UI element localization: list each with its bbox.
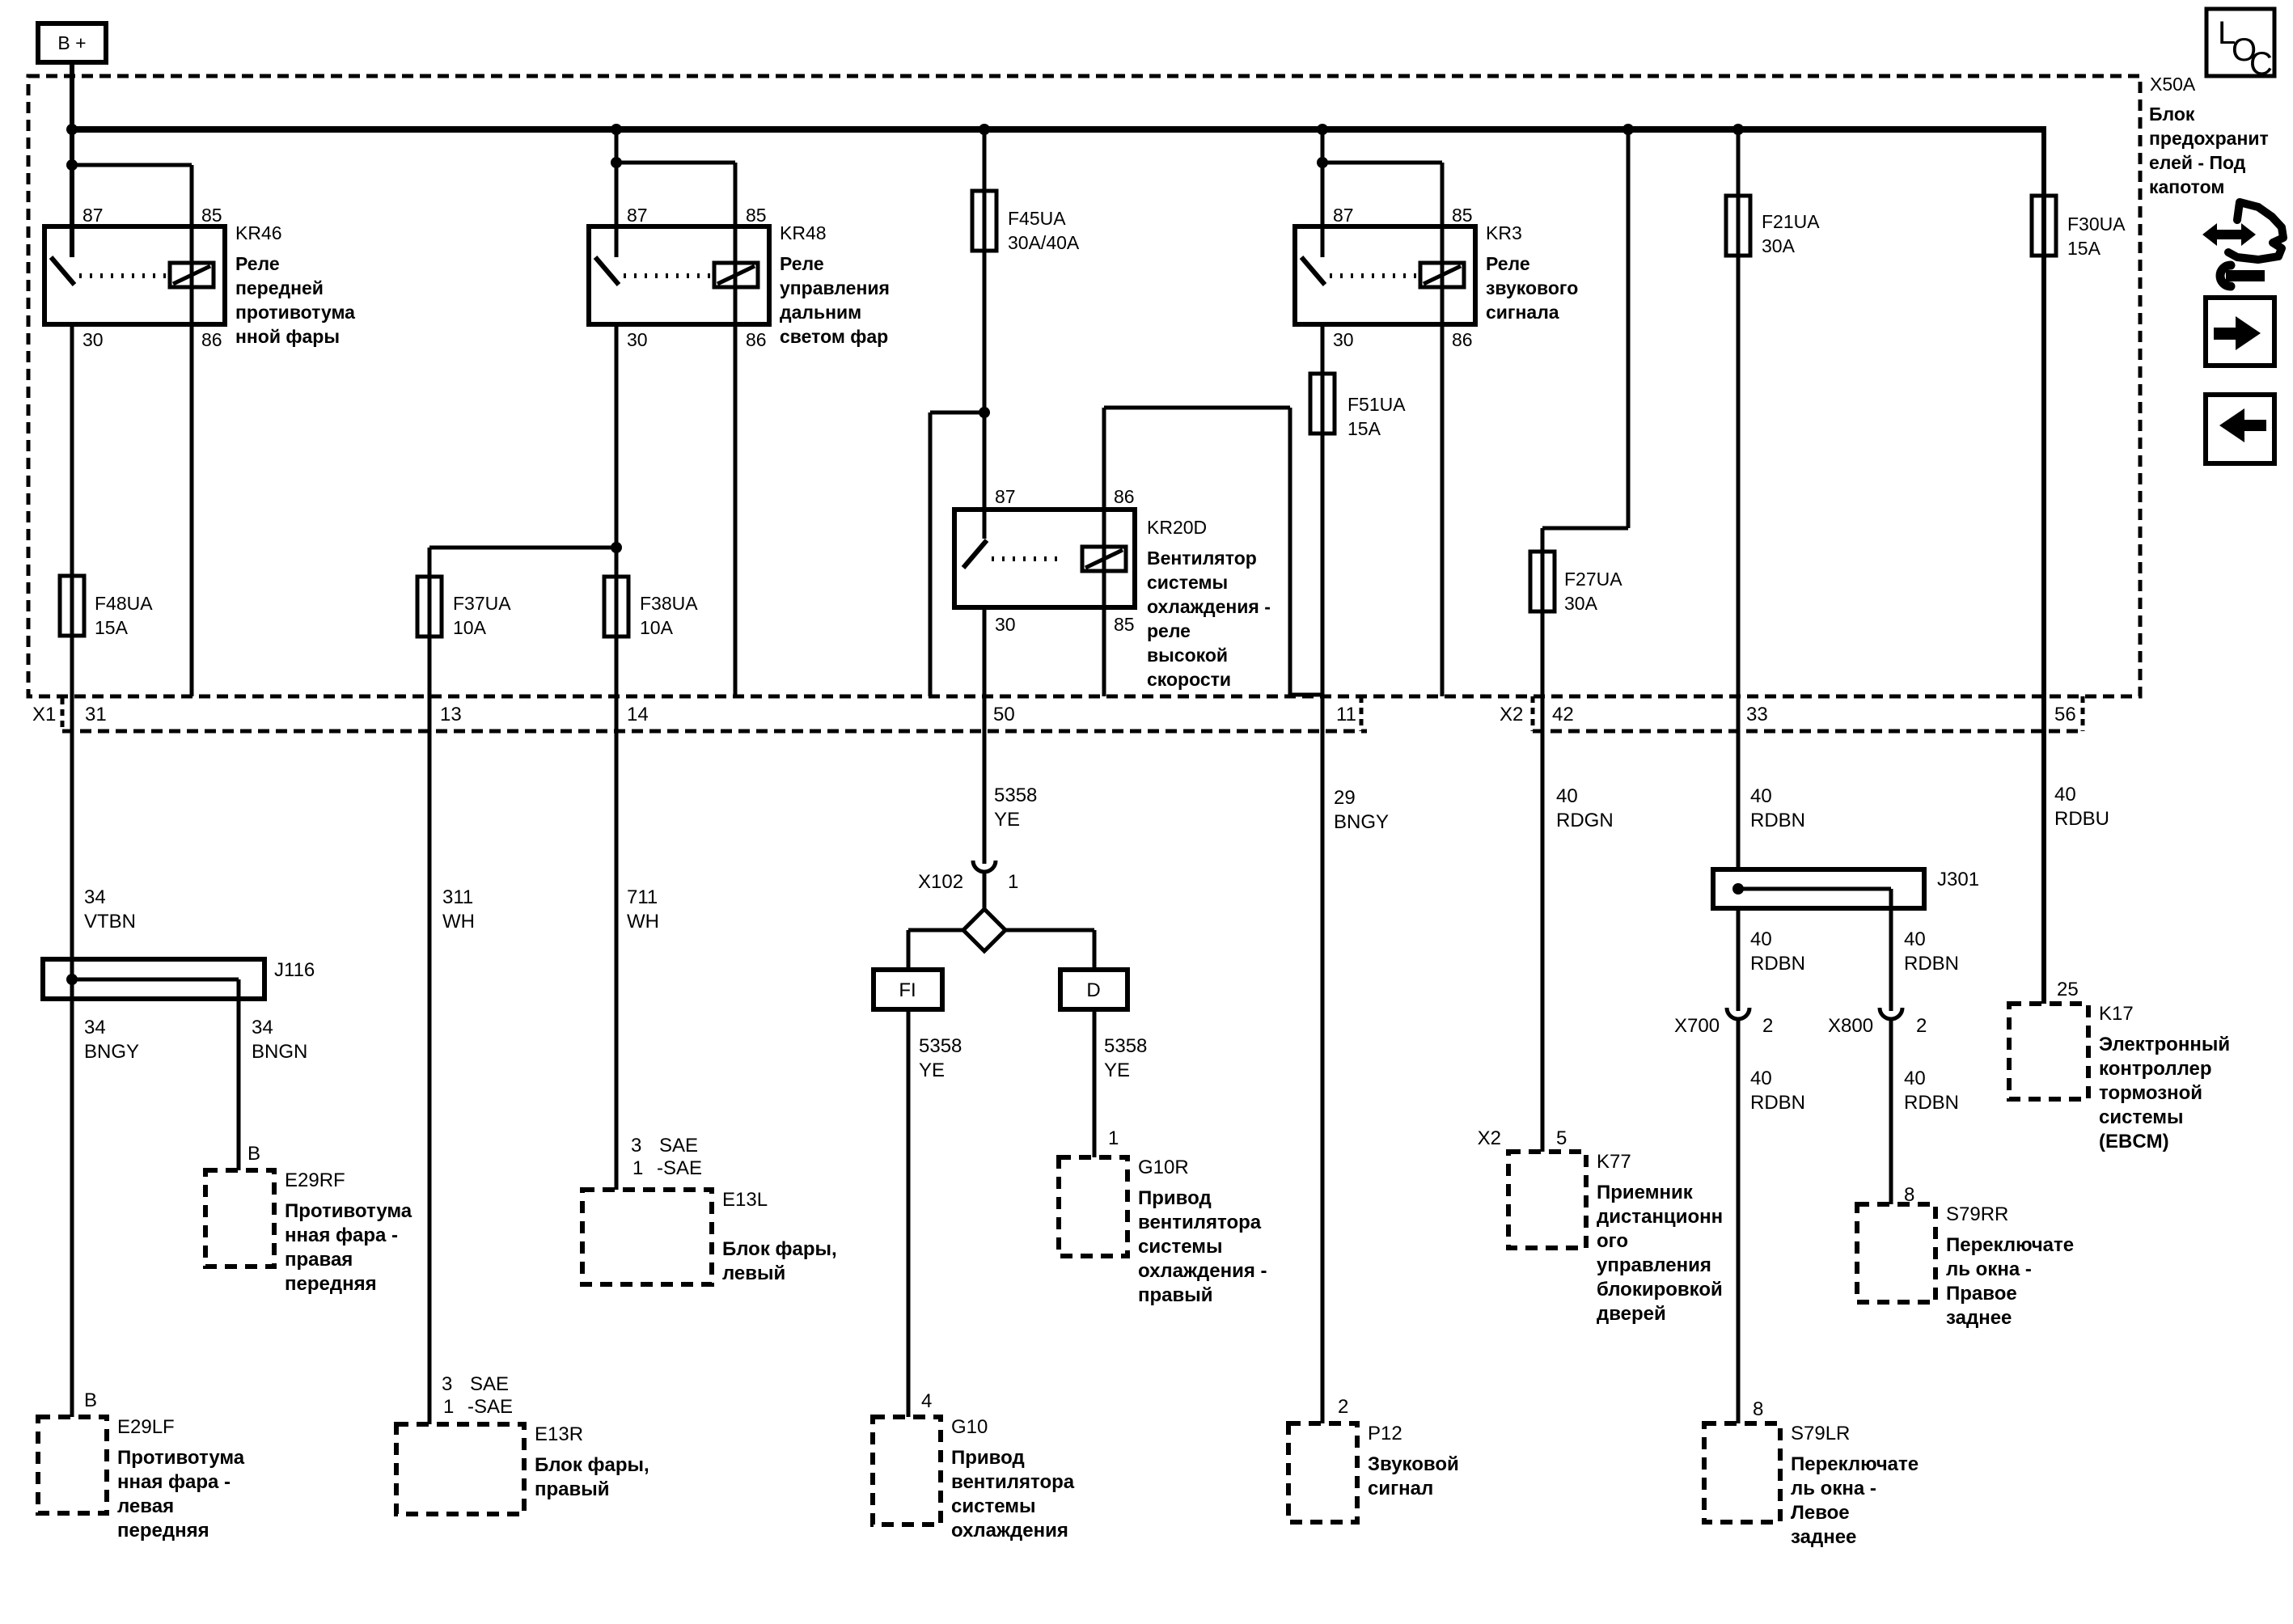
svg-text:FI: FI: [899, 979, 916, 1001]
svg-text:KR46: KR46: [235, 222, 282, 243]
svg-text:Переключате: Переключате: [1791, 1453, 1919, 1475]
svg-text:X50A: X50A: [2150, 74, 2196, 95]
svg-text:предохранит: предохранит: [2149, 128, 2269, 149]
svg-text:SAE: SAE: [470, 1373, 509, 1395]
svg-text:дверей: дверей: [1597, 1303, 1666, 1325]
svg-text:Левое: Левое: [1791, 1502, 1850, 1524]
svg-text:RDBU: RDBU: [2054, 808, 2109, 830]
svg-text:S79RR: S79RR: [1946, 1203, 2008, 1225]
svg-text:86: 86: [1452, 329, 1473, 350]
svg-text:YE: YE: [994, 809, 1020, 831]
svg-text:RDBN: RDBN: [1750, 810, 1805, 831]
svg-text:системы: системы: [951, 1495, 1035, 1517]
svg-text:RDBN: RDBN: [1904, 1092, 1959, 1114]
svg-text:87: 87: [82, 205, 104, 226]
svg-text:левый: левый: [722, 1262, 785, 1284]
svg-text:1: 1: [443, 1396, 454, 1418]
svg-text:заднее: заднее: [1946, 1307, 2012, 1329]
svg-text:30A: 30A: [1564, 593, 1598, 614]
svg-text:охлаждения: охлаждения: [951, 1520, 1068, 1542]
svg-text:G10R: G10R: [1138, 1157, 1189, 1178]
svg-text:вентилятора: вентилятора: [951, 1471, 1075, 1493]
svg-text:5358: 5358: [919, 1035, 962, 1057]
svg-text:2: 2: [1916, 1015, 1927, 1037]
svg-text:системы: системы: [2099, 1106, 2183, 1128]
svg-text:40: 40: [2054, 784, 2076, 806]
svg-text:F37UA: F37UA: [453, 593, 511, 614]
svg-text:33: 33: [1746, 704, 1768, 725]
svg-text:D: D: [1086, 979, 1100, 1001]
svg-text:сигнал: сигнал: [1368, 1478, 1433, 1499]
svg-text:Блок фары,: Блок фары,: [535, 1454, 649, 1476]
svg-text:30: 30: [995, 614, 1016, 635]
svg-text:15A: 15A: [95, 617, 129, 638]
svg-text:заднее: заднее: [1791, 1526, 1856, 1548]
svg-text:звукового: звукового: [1486, 277, 1578, 298]
svg-text:40: 40: [1904, 928, 1926, 950]
svg-text:контроллер: контроллер: [2099, 1058, 2212, 1080]
svg-text:E13R: E13R: [535, 1423, 583, 1445]
svg-text:Переключате: Переключате: [1946, 1234, 2074, 1256]
svg-text:передняя: передняя: [285, 1273, 377, 1295]
svg-text:-SAE: -SAE: [657, 1157, 702, 1179]
svg-text:3: 3: [631, 1135, 641, 1157]
svg-text:управления: управления: [1597, 1254, 1711, 1276]
svg-text:15A: 15A: [2067, 238, 2101, 259]
svg-text:F30UA: F30UA: [2067, 214, 2126, 235]
svg-text:-SAE: -SAE: [467, 1396, 513, 1418]
svg-text:85: 85: [1114, 614, 1135, 635]
svg-text:X102: X102: [918, 871, 963, 893]
svg-text:X2: X2: [1478, 1127, 1501, 1149]
svg-text:13: 13: [440, 704, 462, 725]
svg-text:(EBCM): (EBCM): [2099, 1131, 2169, 1152]
svg-text:40: 40: [1750, 785, 1772, 807]
svg-text:тормозной: тормозной: [2099, 1082, 2202, 1104]
svg-text:5358: 5358: [1104, 1035, 1147, 1057]
svg-text:F38UA: F38UA: [640, 593, 698, 614]
svg-text:YE: YE: [919, 1059, 945, 1081]
svg-text:F51UA: F51UA: [1347, 394, 1406, 415]
svg-text:скорости: скорости: [1147, 669, 1231, 690]
svg-text:нной фары: нной фары: [235, 326, 340, 347]
svg-text:YE: YE: [1104, 1059, 1130, 1081]
svg-text:Звуковой: Звуковой: [1368, 1453, 1459, 1475]
svg-text:системы: системы: [1138, 1236, 1222, 1258]
svg-text:Привод: Привод: [951, 1447, 1025, 1469]
svg-text:RDBN: RDBN: [1750, 1092, 1805, 1114]
svg-text:RDBN: RDBN: [1750, 953, 1805, 975]
svg-text:1: 1: [1008, 871, 1018, 893]
svg-text:30: 30: [1333, 329, 1354, 350]
svg-text:Реле: Реле: [780, 253, 824, 274]
svg-text:87: 87: [1333, 205, 1354, 226]
svg-text:правая: правая: [285, 1249, 353, 1271]
svg-text:реле: реле: [1147, 620, 1191, 641]
svg-text:B: B: [84, 1389, 97, 1411]
svg-text:40: 40: [1750, 1068, 1772, 1089]
svg-text:капотом: капотом: [2149, 176, 2224, 197]
svg-text:86: 86: [201, 329, 222, 350]
svg-text:50: 50: [993, 704, 1015, 725]
svg-text:ль окна -: ль окна -: [1946, 1258, 2032, 1280]
svg-text:KR48: KR48: [780, 222, 827, 243]
svg-text:87: 87: [627, 205, 648, 226]
svg-text:K77: K77: [1597, 1151, 1631, 1173]
svg-text:BNGY: BNGY: [84, 1041, 139, 1063]
svg-text:5358: 5358: [994, 785, 1037, 806]
svg-text:1: 1: [1108, 1127, 1119, 1149]
svg-text:85: 85: [201, 205, 222, 226]
svg-text:X800: X800: [1828, 1015, 1873, 1037]
svg-text:WH: WH: [442, 911, 475, 933]
svg-text:8: 8: [1753, 1398, 1763, 1420]
svg-text:X700: X700: [1674, 1015, 1720, 1037]
svg-text:30A: 30A: [1762, 235, 1796, 256]
svg-text:8: 8: [1904, 1184, 1914, 1206]
svg-text:Блок фары,: Блок фары,: [722, 1238, 837, 1260]
svg-text:86: 86: [1114, 486, 1135, 507]
svg-text:42: 42: [1552, 704, 1574, 725]
svg-text:31: 31: [85, 704, 107, 725]
svg-text:P12: P12: [1368, 1423, 1402, 1444]
svg-text:29: 29: [1334, 787, 1356, 809]
svg-text:34: 34: [252, 1017, 273, 1038]
svg-text:Правое: Правое: [1946, 1283, 2017, 1305]
svg-text:14: 14: [627, 704, 649, 725]
svg-text:B: B: [247, 1143, 260, 1165]
svg-text:34: 34: [84, 1017, 106, 1038]
svg-text:E29RF: E29RF: [285, 1169, 345, 1191]
svg-text:X1: X1: [32, 704, 56, 725]
svg-text:сигнала: сигнала: [1486, 302, 1559, 323]
svg-text:высокой: высокой: [1147, 645, 1228, 666]
svg-text:J301: J301: [1937, 869, 1979, 890]
svg-text:Реле: Реле: [235, 253, 280, 274]
svg-text:5: 5: [1556, 1127, 1567, 1149]
svg-text:10A: 10A: [453, 617, 487, 638]
svg-text:Противотума: Противотума: [117, 1447, 245, 1469]
svg-text:30: 30: [627, 329, 648, 350]
svg-text:Электронный: Электронный: [2099, 1034, 2230, 1055]
svg-text:елей - Под: елей - Под: [2149, 152, 2246, 173]
svg-text:Вентилятор: Вентилятор: [1147, 548, 1257, 569]
svg-text:87: 87: [995, 486, 1016, 507]
svg-text:3: 3: [442, 1373, 452, 1395]
svg-text:30: 30: [82, 329, 104, 350]
svg-text:2: 2: [1338, 1396, 1348, 1418]
svg-text:85: 85: [746, 205, 767, 226]
svg-text:правый: правый: [1138, 1284, 1213, 1306]
svg-text:25: 25: [2057, 979, 2079, 1000]
svg-text:SAE: SAE: [659, 1135, 698, 1157]
svg-text:G10: G10: [951, 1416, 988, 1438]
svg-text:34: 34: [84, 886, 106, 908]
svg-text:передней: передней: [235, 277, 324, 298]
svg-text:ль окна -: ль окна -: [1791, 1478, 1876, 1499]
svg-text:KR3: KR3: [1486, 222, 1522, 243]
svg-text:F45UA: F45UA: [1008, 208, 1066, 229]
svg-text:85: 85: [1452, 205, 1473, 226]
svg-text:управления: управления: [780, 277, 890, 298]
svg-text:1: 1: [632, 1157, 643, 1179]
svg-text:2: 2: [1762, 1015, 1773, 1037]
svg-text:BNGN: BNGN: [252, 1041, 307, 1063]
svg-text:311: 311: [442, 886, 473, 908]
svg-text:Реле: Реле: [1486, 253, 1530, 274]
svg-text:4: 4: [921, 1390, 932, 1412]
svg-text:охлаждения -: охлаждения -: [1138, 1260, 1267, 1282]
svg-text:15A: 15A: [1347, 418, 1381, 439]
svg-text:KR20D: KR20D: [1147, 517, 1207, 538]
svg-text:F48UA: F48UA: [95, 593, 153, 614]
svg-text:правый: правый: [535, 1478, 610, 1500]
svg-text:передняя: передняя: [117, 1520, 209, 1542]
svg-text:RDBN: RDBN: [1904, 953, 1959, 975]
svg-text:светом фар: светом фар: [780, 326, 888, 347]
svg-text:дистанционн: дистанционн: [1597, 1206, 1723, 1228]
svg-text:10A: 10A: [640, 617, 674, 638]
svg-text:VTBN: VTBN: [84, 911, 136, 933]
svg-text:56: 56: [2054, 704, 2076, 725]
svg-text:Противотума: Противотума: [285, 1200, 412, 1222]
svg-text:40: 40: [1750, 928, 1772, 950]
svg-text:охлаждения -: охлаждения -: [1147, 596, 1271, 617]
svg-text:противотума: противотума: [235, 302, 355, 323]
svg-text:40: 40: [1904, 1068, 1926, 1089]
svg-text:нная фара -: нная фара -: [117, 1471, 231, 1493]
svg-text:WH: WH: [627, 911, 659, 933]
svg-text:86: 86: [746, 329, 767, 350]
svg-text:X2: X2: [1500, 704, 1523, 725]
svg-text:C: C: [2249, 46, 2273, 82]
svg-text:S79LR: S79LR: [1791, 1423, 1850, 1444]
svg-text:дальним: дальним: [780, 302, 861, 323]
svg-text:RDGN: RDGN: [1556, 810, 1614, 831]
svg-text:E29LF: E29LF: [117, 1416, 175, 1438]
svg-text:30A/40A: 30A/40A: [1008, 232, 1080, 253]
svg-text:F21UA: F21UA: [1762, 211, 1820, 232]
svg-text:Блок: Блок: [2149, 104, 2195, 125]
svg-text:системы: системы: [1147, 572, 1228, 593]
svg-text:E13L: E13L: [722, 1189, 768, 1211]
svg-text:J116: J116: [274, 959, 315, 981]
svg-text:нная фара -: нная фара -: [285, 1224, 398, 1246]
svg-text:40: 40: [1556, 785, 1578, 807]
svg-text:блокировкой: блокировкой: [1597, 1279, 1723, 1300]
svg-text:K17: K17: [2099, 1003, 2134, 1025]
svg-text:BNGY: BNGY: [1334, 811, 1389, 833]
svg-text:ого: ого: [1597, 1230, 1628, 1252]
svg-text:711: 711: [627, 886, 658, 908]
svg-text:11: 11: [1336, 704, 1356, 725]
svg-text:Приемник: Приемник: [1597, 1182, 1694, 1203]
svg-text:вентилятора: вентилятора: [1138, 1212, 1262, 1233]
svg-text:Привод: Привод: [1138, 1187, 1212, 1209]
svg-text:B +: B +: [57, 32, 86, 53]
svg-text:F27UA: F27UA: [1564, 569, 1622, 590]
svg-text:левая: левая: [117, 1495, 174, 1517]
